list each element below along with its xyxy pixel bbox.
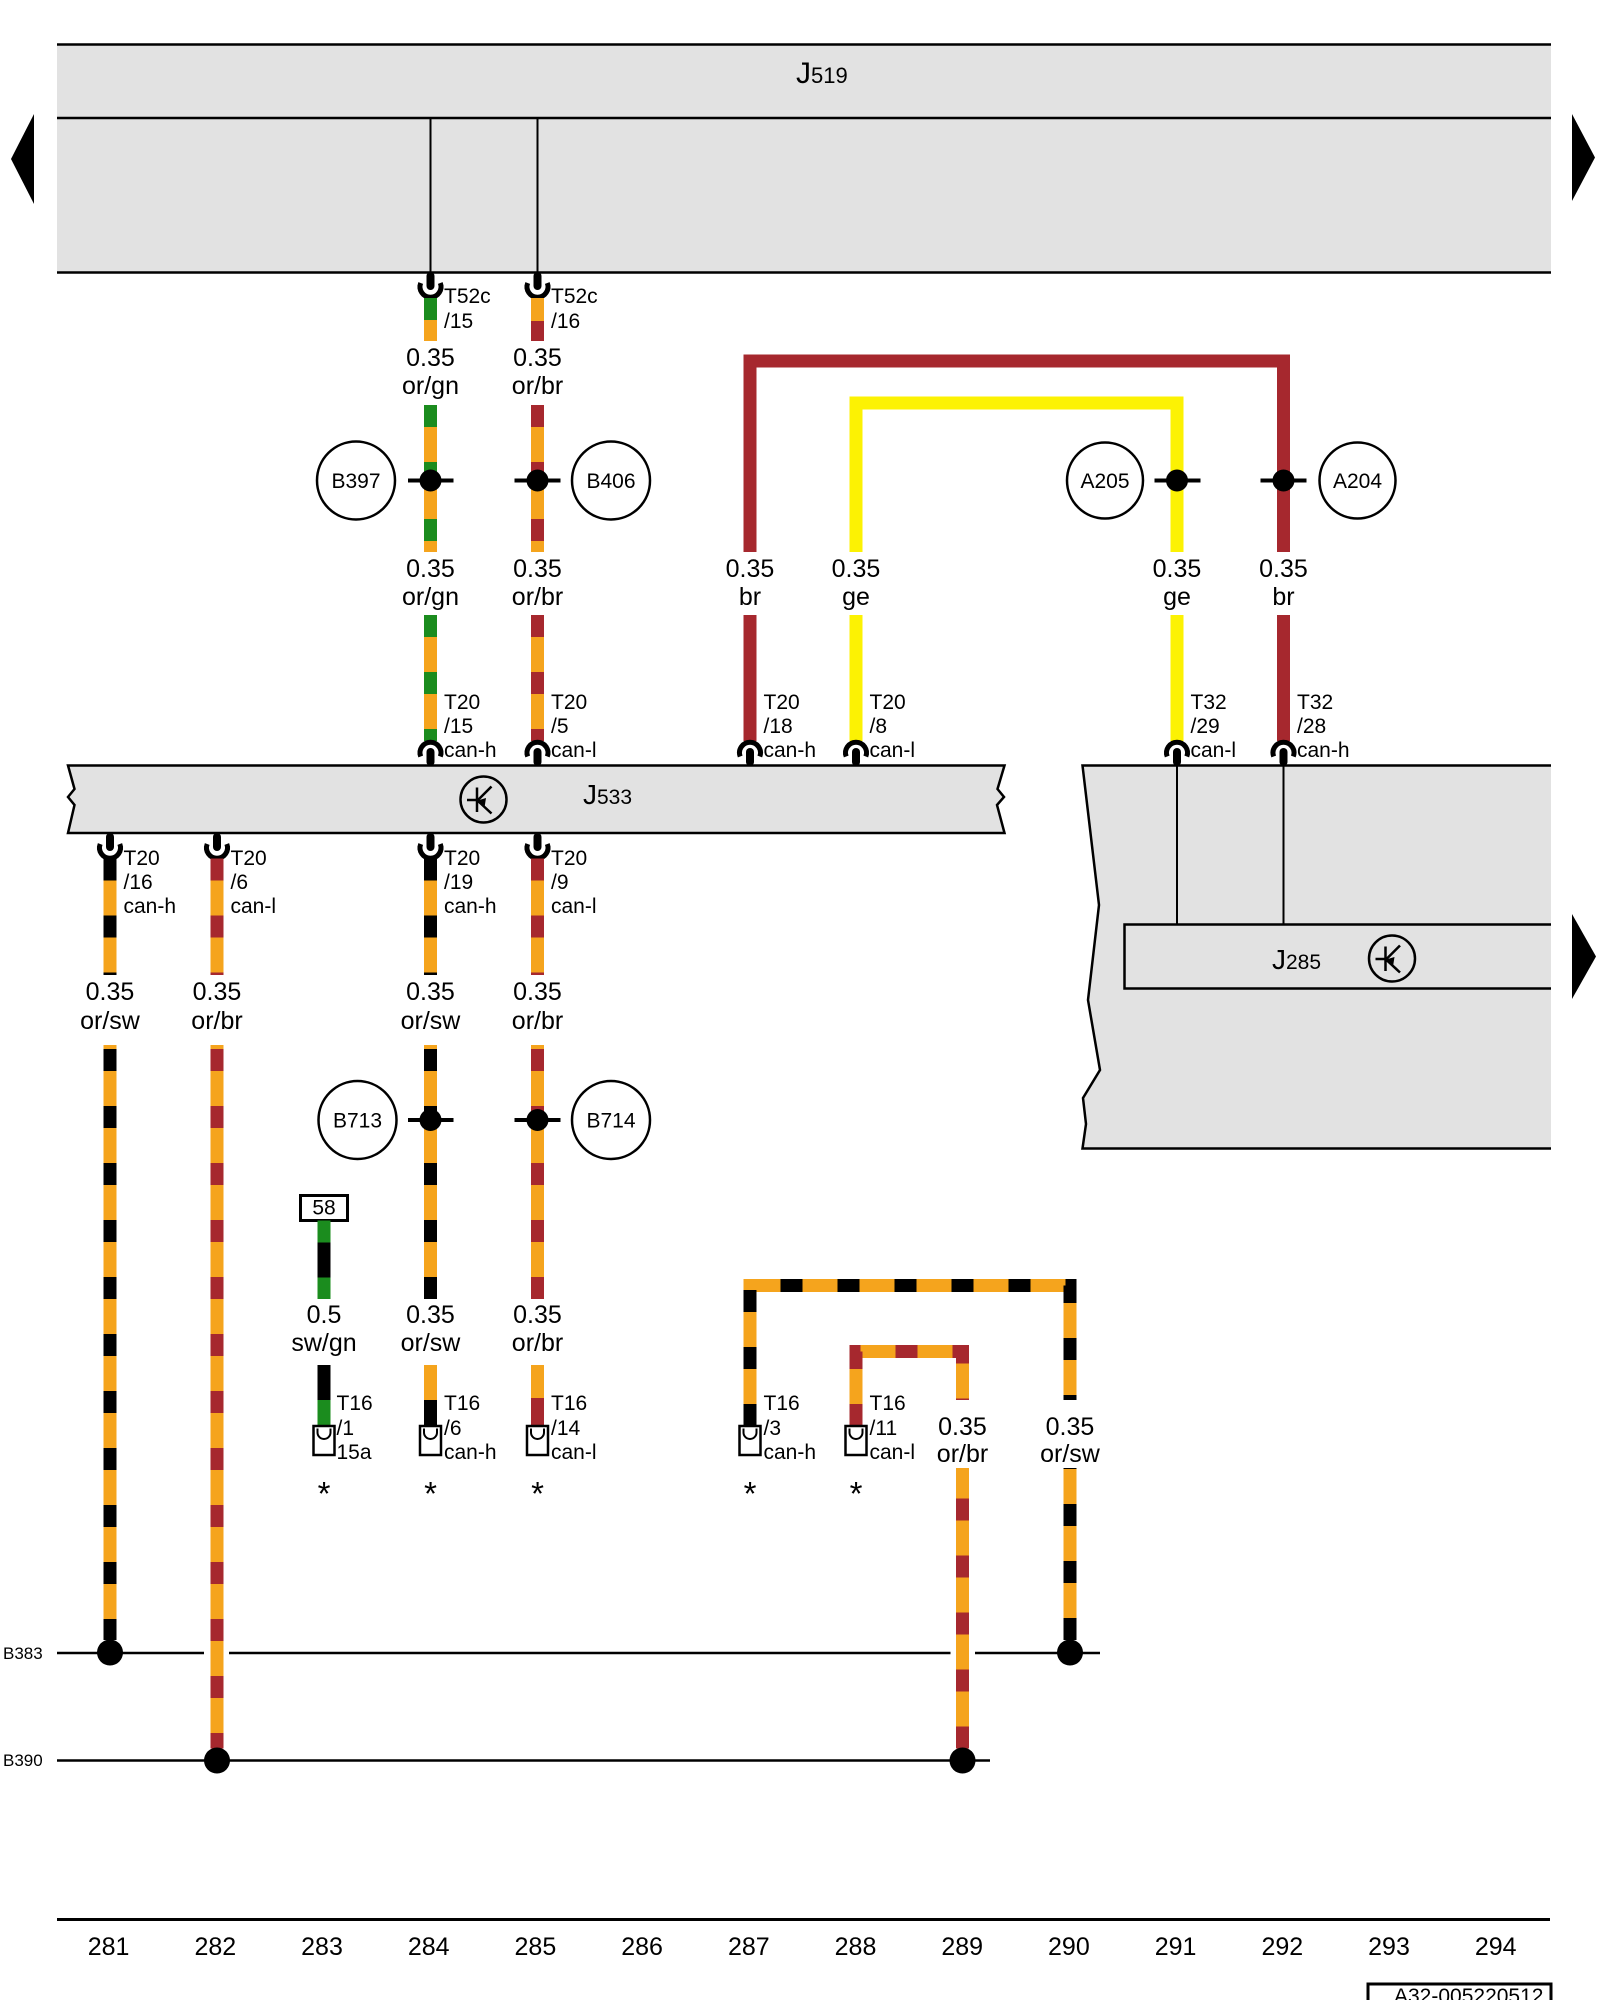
svg-text:or/sw: or/sw: [1040, 1440, 1101, 1468]
svg-text:A205: A205: [1080, 470, 1129, 493]
svg-text:0.35: 0.35: [1046, 1413, 1095, 1441]
svg-text:T20: T20: [551, 847, 587, 870]
svg-text:can-h: can-h: [124, 895, 177, 918]
svg-text:B714: B714: [586, 1110, 635, 1133]
svg-text:0.35: 0.35: [832, 555, 881, 583]
svg-text:287: 287: [728, 1933, 770, 1961]
svg-text:0.35: 0.35: [513, 344, 562, 372]
svg-text:/19: /19: [444, 871, 473, 894]
svg-text:or/gn: or/gn: [402, 583, 459, 611]
svg-text:can-h: can-h: [444, 895, 497, 918]
svg-text:ge: ge: [1163, 583, 1191, 611]
svg-text:*: *: [850, 1475, 863, 1512]
svg-text:0.5: 0.5: [307, 1301, 342, 1329]
svg-text:T20: T20: [444, 691, 480, 714]
svg-text:281: 281: [88, 1933, 130, 1961]
svg-text:0.35: 0.35: [406, 344, 455, 372]
svg-text:/29: /29: [1191, 715, 1220, 738]
svg-text:0.35: 0.35: [513, 978, 562, 1006]
svg-text:/8: /8: [870, 715, 888, 738]
svg-text:T20: T20: [764, 691, 800, 714]
svg-text:T16: T16: [444, 1392, 480, 1415]
svg-text:T20: T20: [551, 691, 587, 714]
svg-text:or/br: or/br: [512, 1329, 563, 1357]
svg-text:*: *: [424, 1475, 437, 1512]
svg-text:can-l: can-l: [231, 895, 277, 918]
svg-text:can-l: can-l: [1191, 739, 1237, 762]
svg-text:or/br: or/br: [512, 583, 563, 611]
svg-text:0.35: 0.35: [513, 1301, 562, 1329]
svg-text:0.35: 0.35: [1153, 555, 1202, 583]
svg-text:can-l: can-l: [870, 1441, 916, 1464]
svg-text:/28: /28: [1297, 715, 1326, 738]
svg-text:B390: B390: [3, 1751, 43, 1770]
svg-text:/16: /16: [551, 310, 580, 333]
svg-text:B383: B383: [3, 1644, 43, 1663]
svg-text:/16: /16: [124, 871, 153, 894]
svg-text:T16: T16: [764, 1392, 800, 1415]
svg-text:0.35: 0.35: [406, 1301, 455, 1329]
svg-text:0.35: 0.35: [193, 978, 242, 1006]
svg-text:/14: /14: [551, 1417, 581, 1440]
svg-text:/9: /9: [551, 871, 569, 894]
svg-text:or/gn: or/gn: [402, 372, 459, 400]
svg-text:or/br: or/br: [937, 1440, 988, 1468]
svg-text:can-h: can-h: [1297, 739, 1350, 762]
svg-text:or/br: or/br: [512, 372, 563, 400]
svg-text:T32: T32: [1191, 691, 1227, 714]
svg-text:or/br: or/br: [512, 1007, 563, 1035]
svg-text:can-l: can-l: [551, 1441, 597, 1464]
svg-text:283: 283: [301, 1933, 343, 1961]
svg-text:T16: T16: [870, 1392, 906, 1415]
svg-text:T16: T16: [551, 1392, 587, 1415]
svg-text:T32: T32: [1297, 691, 1333, 714]
svg-text:/6: /6: [444, 1417, 462, 1440]
svg-text:*: *: [531, 1475, 544, 1512]
svg-text:0.35: 0.35: [513, 555, 562, 583]
svg-text:br: br: [739, 583, 761, 611]
svg-text:/15: /15: [444, 310, 473, 333]
svg-text:293: 293: [1368, 1933, 1410, 1961]
svg-text:/15: /15: [444, 715, 473, 738]
svg-text:0.35: 0.35: [1259, 555, 1308, 583]
svg-text:B406: B406: [586, 470, 635, 493]
svg-text:T20: T20: [124, 847, 160, 870]
svg-text:can-h: can-h: [764, 1441, 817, 1464]
svg-text:or/sw: or/sw: [401, 1007, 462, 1035]
svg-text:T16: T16: [337, 1392, 373, 1415]
svg-text:/3: /3: [764, 1417, 782, 1440]
svg-text:sw/gn: sw/gn: [291, 1329, 356, 1357]
svg-text:br: br: [1272, 583, 1294, 611]
svg-text:294: 294: [1475, 1933, 1517, 1961]
svg-text:282: 282: [194, 1933, 236, 1961]
svg-text:can-l: can-l: [551, 895, 597, 918]
svg-text:285: 285: [515, 1933, 557, 1961]
svg-text:or/br: or/br: [191, 1007, 242, 1035]
svg-text:T20: T20: [231, 847, 267, 870]
svg-text:T52c: T52c: [444, 285, 491, 308]
svg-text:T20: T20: [870, 691, 906, 714]
svg-text:can-l: can-l: [870, 739, 916, 762]
svg-text:289: 289: [941, 1933, 983, 1961]
svg-text:0.35: 0.35: [406, 978, 455, 1006]
svg-text:/11: /11: [870, 1417, 898, 1440]
svg-text:291: 291: [1155, 1933, 1197, 1961]
svg-text:15a: 15a: [337, 1441, 372, 1464]
svg-text:B713: B713: [333, 1110, 382, 1133]
svg-text:/5: /5: [551, 715, 569, 738]
svg-text:290: 290: [1048, 1933, 1090, 1961]
svg-text:B397: B397: [331, 470, 380, 493]
svg-text:284: 284: [408, 1933, 450, 1961]
svg-text:286: 286: [621, 1933, 663, 1961]
svg-text:/18: /18: [764, 715, 793, 738]
svg-text:or/sw: or/sw: [401, 1329, 462, 1357]
svg-text:can-h: can-h: [444, 739, 497, 762]
svg-text:0.35: 0.35: [938, 1413, 987, 1441]
svg-text:292: 292: [1261, 1933, 1303, 1961]
svg-text:T20: T20: [444, 847, 480, 870]
svg-text:0.35: 0.35: [86, 978, 135, 1006]
svg-text:288: 288: [835, 1933, 877, 1961]
svg-text:can-h: can-h: [444, 1441, 497, 1464]
svg-text:can-l: can-l: [551, 739, 597, 762]
svg-text:*: *: [318, 1475, 331, 1512]
svg-text:/1: /1: [337, 1417, 355, 1440]
svg-text:58: 58: [312, 1197, 335, 1220]
svg-text:or/sw: or/sw: [80, 1007, 141, 1035]
svg-text:can-h: can-h: [764, 739, 817, 762]
svg-text:T52c: T52c: [551, 285, 598, 308]
svg-text:0.35: 0.35: [406, 555, 455, 583]
svg-text:/6: /6: [231, 871, 249, 894]
svg-text:*: *: [744, 1475, 757, 1512]
svg-text:ge: ge: [842, 583, 870, 611]
svg-text:A204: A204: [1333, 470, 1382, 493]
svg-text:A32-005220512: A32-005220512: [1394, 1985, 1543, 2000]
svg-text:0.35: 0.35: [726, 555, 775, 583]
